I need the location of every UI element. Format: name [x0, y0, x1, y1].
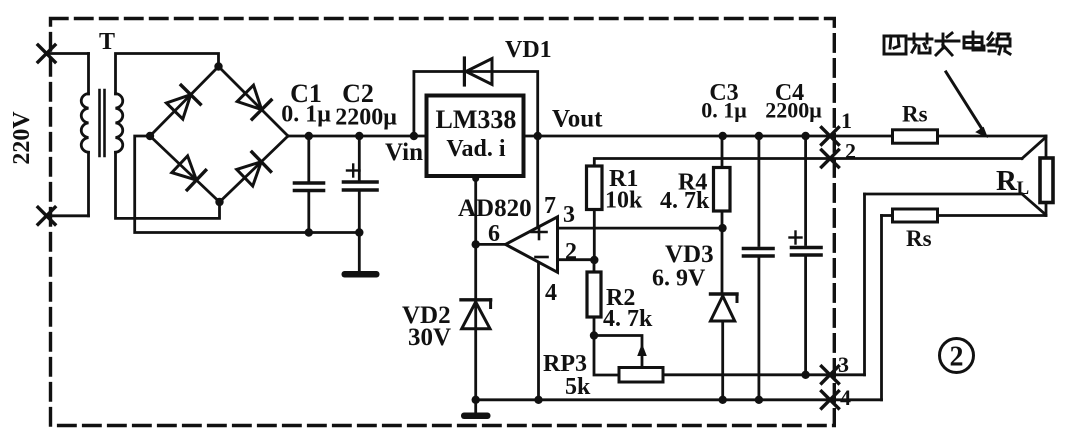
- svg-text:220V: 220V: [9, 111, 35, 165]
- svg-text:Vin: Vin: [385, 139, 423, 166]
- svg-text:2: 2: [565, 239, 577, 265]
- svg-text:2200μ: 2200μ: [765, 98, 822, 123]
- svg-text:4. 7k: 4. 7k: [603, 306, 653, 332]
- svg-text:0. 1μ: 0. 1μ: [701, 98, 747, 123]
- svg-text:LM338: LM338: [436, 105, 517, 134]
- svg-text:10k: 10k: [605, 188, 643, 214]
- svg-text:5k: 5k: [565, 374, 591, 400]
- svg-text:3: 3: [563, 202, 575, 228]
- svg-text:VD3: VD3: [665, 241, 714, 268]
- svg-text:0. 1μ: 0. 1μ: [281, 102, 331, 128]
- svg-text:R: R: [996, 165, 1018, 197]
- svg-text:Vout: Vout: [552, 106, 603, 133]
- svg-text:30V: 30V: [408, 324, 451, 351]
- svg-text:3: 3: [838, 352, 849, 377]
- svg-text:2200μ: 2200μ: [335, 105, 397, 131]
- svg-text:6. 9V: 6. 9V: [652, 266, 706, 292]
- svg-text:Rs: Rs: [906, 226, 932, 251]
- svg-text:Vad. i: Vad. i: [446, 136, 505, 162]
- svg-text:T: T: [99, 29, 115, 55]
- svg-text:4. 7k: 4. 7k: [660, 188, 710, 214]
- svg-text:7: 7: [544, 193, 556, 219]
- svg-text:VD1: VD1: [505, 37, 552, 63]
- svg-text:2: 2: [950, 342, 964, 373]
- svg-text:4: 4: [840, 385, 851, 410]
- svg-text:AD820: AD820: [458, 195, 532, 222]
- svg-text:4: 4: [545, 280, 557, 306]
- svg-text:1: 1: [841, 108, 852, 133]
- svg-text:6: 6: [488, 221, 500, 247]
- svg-text:Rs: Rs: [902, 102, 928, 127]
